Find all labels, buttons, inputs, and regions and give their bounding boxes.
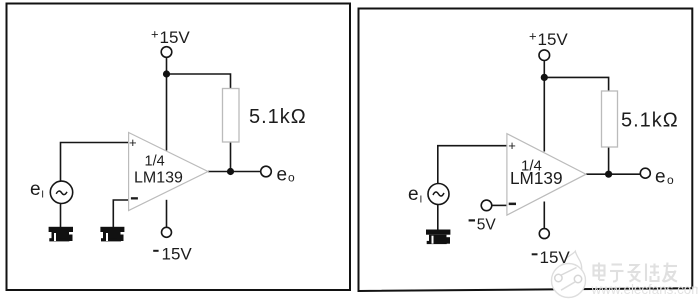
svg-text:LM139: LM139 [134, 170, 183, 187]
svg-text:e: e [277, 164, 288, 185]
svg-text:+: + [129, 135, 137, 150]
svg-text:o: o [667, 173, 674, 187]
svg-text:+: + [529, 29, 537, 44]
svg-text:1/4: 1/4 [145, 154, 165, 170]
svg-text:o: o [288, 170, 295, 184]
svg-text:15V: 15V [540, 248, 571, 267]
svg-text:I: I [41, 190, 44, 201]
svg-text:www.elecfans.com: www.elecfans.com [591, 282, 698, 297]
svg-text:15V: 15V [538, 30, 569, 49]
svg-text:5V: 5V [477, 216, 497, 233]
svg-text:e: e [655, 166, 666, 187]
svg-text:5.1kΩ: 5.1kΩ [621, 110, 679, 132]
svg-text:e: e [30, 179, 41, 200]
svg-text:5.1kΩ: 5.1kΩ [249, 106, 307, 128]
svg-text:15V: 15V [162, 245, 193, 264]
svg-text:+: + [508, 138, 516, 153]
svg-text:LM139: LM139 [510, 168, 563, 188]
svg-text:+: + [151, 27, 159, 42]
svg-text:e: e [408, 184, 419, 205]
svg-text:I: I [420, 194, 423, 205]
svg-text:15V: 15V [160, 28, 191, 47]
